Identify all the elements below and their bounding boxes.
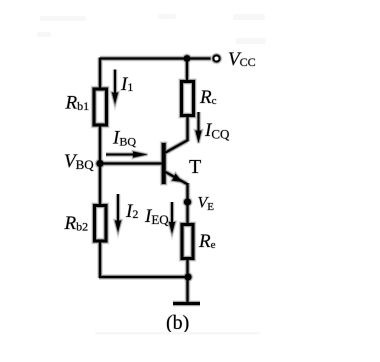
svg-text:Rb1: Rb1: [65, 93, 90, 114]
svg-text:VBQ: VBQ: [64, 151, 94, 172]
svg-text:VCC: VCC: [228, 49, 256, 70]
svg-text:IBQ: IBQ: [112, 128, 136, 149]
svg-text:(b): (b): [166, 312, 189, 334]
svg-text:I2: I2: [125, 201, 138, 222]
svg-text:T: T: [189, 156, 201, 178]
svg-text:VE: VE: [198, 195, 215, 214]
svg-text:ICQ: ICQ: [204, 120, 230, 142]
svg-text:I1: I1: [120, 74, 133, 95]
svg-text:Re: Re: [198, 231, 216, 252]
svg-text:Rb2: Rb2: [64, 213, 89, 234]
svg-text:Rc: Rc: [199, 87, 217, 108]
svg-text:IEQ: IEQ: [144, 206, 169, 227]
